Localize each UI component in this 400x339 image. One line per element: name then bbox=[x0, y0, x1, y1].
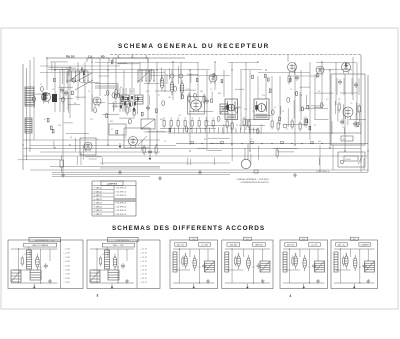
svg-text:R8: R8 bbox=[204, 139, 206, 141]
svg-text:— C6 4T: — C6 4T bbox=[140, 270, 148, 272]
svg-text:— C5 4T: — C5 4T bbox=[140, 265, 148, 267]
svg-text:C15: C15 bbox=[178, 115, 181, 117]
svg-text:R1: R1 bbox=[309, 267, 311, 269]
svg-text:P.6: P.6 bbox=[353, 239, 356, 241]
svg-text:— C6 4T: — C6 4T bbox=[63, 270, 71, 272]
svg-text:— C8 4T: — C8 4T bbox=[63, 278, 71, 280]
svg-text:MODULATION — GO: MODULATION — GO bbox=[35, 239, 55, 242]
svg-text:R1: R1 bbox=[253, 267, 255, 269]
svg-text:MW.CW: MW.CW bbox=[255, 245, 262, 247]
svg-text:✶ 6E8-21: ✶ 6E8-21 bbox=[94, 194, 104, 197]
svg-text:470: 470 bbox=[262, 95, 265, 97]
svg-text:— C3 4T: — C3 4T bbox=[140, 257, 148, 259]
svg-text:C2: C2 bbox=[237, 254, 239, 256]
svg-text:✶ 6E8-21: ✶ 6E8-21 bbox=[94, 198, 104, 201]
svg-text:R1: R1 bbox=[199, 267, 201, 269]
svg-text:100: 100 bbox=[58, 125, 61, 127]
svg-text:C15: C15 bbox=[238, 107, 241, 109]
svg-text:CLAVIER: CLAVIER bbox=[361, 244, 370, 247]
svg-text:3: 3 bbox=[97, 294, 99, 298]
svg-text:C9: C9 bbox=[350, 103, 352, 105]
svg-text:6E8: 6E8 bbox=[160, 119, 163, 121]
svg-text:CL. PO: CL. PO bbox=[311, 245, 318, 247]
svg-text:1 16 2F9 C4: 1 16 2F9 C4 bbox=[116, 210, 126, 212]
svg-text:— C3 4T: — C3 4T bbox=[63, 257, 71, 259]
svg-text:GMS. ET TRANSF.: GMS. ET TRANSF. bbox=[32, 244, 49, 247]
svg-text:R10: R10 bbox=[318, 141, 321, 143]
svg-text:SCHEMA GENERAL DU RECEPTEUR: SCHEMA GENERAL DU RECEPTEUR bbox=[118, 43, 270, 50]
svg-text:C2: C2 bbox=[294, 254, 296, 256]
svg-text:CL. FM: CL. FM bbox=[201, 245, 208, 247]
svg-text:— C7 4T: — C7 4T bbox=[63, 274, 71, 276]
svg-text:R4: R4 bbox=[74, 103, 76, 105]
svg-text:✶ 6E8-21: ✶ 6E8-21 bbox=[94, 209, 104, 212]
svg-text:R4: R4 bbox=[300, 95, 302, 97]
svg-text:✶ 6E8-21: ✶ 6E8-21 bbox=[94, 213, 104, 216]
svg-text:22: 22 bbox=[252, 111, 254, 113]
svg-text:100: 100 bbox=[168, 97, 171, 99]
svg-text:— C7 4T: — C7 4T bbox=[140, 274, 148, 276]
svg-text:— C4 4T: — C4 4T bbox=[140, 261, 148, 263]
svg-text:C3: C3 bbox=[342, 127, 344, 129]
svg-text:P.3: P.3 bbox=[192, 239, 195, 241]
svg-text:POSITION P.U.: POSITION P.U. bbox=[116, 240, 130, 242]
svg-text:R1: R1 bbox=[359, 267, 361, 269]
svg-text:C7: C7 bbox=[326, 99, 328, 101]
svg-text:C9: C9 bbox=[250, 139, 252, 141]
svg-text:✶ 6E8-21: ✶ 6E8-21 bbox=[94, 190, 104, 193]
svg-text:1 16 2F9 C4: 1 16 2F9 C4 bbox=[116, 203, 126, 205]
svg-text:R8: R8 bbox=[338, 99, 340, 101]
svg-text:R1: R1 bbox=[117, 267, 119, 269]
svg-text:4V5: 4V5 bbox=[343, 139, 346, 141]
svg-text:470: 470 bbox=[260, 125, 263, 127]
svg-text:22: 22 bbox=[236, 125, 238, 127]
svg-text:GM. BM: GM. BM bbox=[230, 245, 237, 247]
svg-text:R2: R2 bbox=[314, 125, 316, 127]
svg-text:47: 47 bbox=[44, 119, 46, 121]
svg-text:R10: R10 bbox=[358, 111, 361, 113]
svg-text:6E8: 6E8 bbox=[218, 93, 221, 95]
svg-text:R1: R1 bbox=[40, 267, 42, 269]
svg-text:1 16 2F9 C4: 1 16 2F9 C4 bbox=[116, 191, 126, 193]
svg-text:C2: C2 bbox=[24, 254, 26, 256]
svg-text:MW. — CW.: MW. — CW. bbox=[113, 245, 124, 247]
svg-text:C7: C7 bbox=[112, 103, 114, 105]
svg-text:1 16 2F9 C4: 1 16 2F9 C4 bbox=[116, 214, 126, 216]
svg-text:• L’INTERRUPTEUR A POSITION: • L’INTERRUPTEUR A POSITION bbox=[240, 181, 269, 184]
svg-text:C7: C7 bbox=[164, 141, 166, 143]
svg-text:FM. GO: FM. GO bbox=[66, 55, 75, 58]
svg-text:LAMPES: LAMPES bbox=[107, 183, 118, 186]
svg-text:R16: R16 bbox=[206, 121, 209, 123]
svg-text:— C9 4T: — C9 4T bbox=[63, 282, 71, 284]
svg-text:C1: C1 bbox=[286, 129, 288, 131]
svg-text:4: 4 bbox=[290, 294, 292, 298]
svg-text:1 16 2F9 C4: 1 16 2F9 C4 bbox=[116, 188, 126, 190]
svg-text:MO. PO: MO. PO bbox=[287, 245, 294, 247]
svg-text:R2: R2 bbox=[282, 111, 284, 113]
svg-text:1 16 2F9 C4: 1 16 2F9 C4 bbox=[116, 206, 126, 208]
svg-text:R8: R8 bbox=[120, 87, 122, 89]
svg-text:C2: C2 bbox=[184, 254, 186, 256]
svg-text:R2: R2 bbox=[52, 89, 54, 91]
svg-text:C9: C9 bbox=[130, 91, 132, 93]
svg-text:C3: C3 bbox=[290, 89, 292, 91]
svg-text:C1: C1 bbox=[40, 84, 42, 86]
svg-text:R10: R10 bbox=[146, 91, 149, 93]
svg-text:✶ 6E8-21: ✶ 6E8-21 bbox=[94, 205, 104, 208]
svg-text:SCHEMAS DES DIFFERENTS ACCORDS: SCHEMAS DES DIFFERENTS ACCORDS bbox=[112, 225, 265, 232]
svg-text:R6: R6 bbox=[104, 95, 106, 97]
svg-text:— C5 4T: — C5 4T bbox=[63, 265, 71, 267]
svg-text:• TRAIT A L’INTERIEUR — FILS N: • TRAIT A L’INTERIEUR — FILS NOIR bbox=[236, 178, 269, 181]
svg-text:R14: R14 bbox=[110, 121, 113, 123]
svg-text:MO. GO: MO. GO bbox=[177, 245, 185, 247]
svg-text:R6: R6 bbox=[124, 137, 126, 139]
svg-text:— C1 4T: — C1 4T bbox=[63, 249, 71, 251]
svg-text:C3: C3 bbox=[66, 93, 68, 95]
svg-text:— C2 4T: — C2 4T bbox=[140, 253, 148, 255]
svg-text:P.5: P.5 bbox=[302, 239, 305, 241]
svg-text:C2: C2 bbox=[102, 254, 104, 256]
svg-text:R4: R4 bbox=[70, 137, 72, 139]
svg-text:— C9 4T: — C9 4T bbox=[140, 282, 148, 284]
svg-text:✳ SECTEUR ✳: ✳ SECTEUR ✳ bbox=[316, 170, 330, 173]
svg-text:MO. OC: MO. OC bbox=[338, 245, 346, 247]
svg-text:C12: C12 bbox=[186, 89, 189, 91]
svg-text:6V-110: 6V-110 bbox=[346, 159, 351, 161]
svg-text:C1: C1 bbox=[274, 107, 276, 109]
svg-text:✶ 6E8-21: ✶ 6E8-21 bbox=[94, 202, 104, 205]
svg-text:✶ 6E8-21: ✶ 6E8-21 bbox=[94, 187, 104, 190]
svg-text:C12: C12 bbox=[90, 119, 93, 121]
svg-text:— C1 4T: — C1 4T bbox=[140, 249, 148, 251]
svg-text:— C8 4T: — C8 4T bbox=[140, 278, 148, 280]
svg-text:R16: R16 bbox=[244, 109, 247, 111]
svg-text:C5: C5 bbox=[88, 91, 90, 93]
svg-text:— C2 4T: — C2 4T bbox=[63, 253, 71, 255]
svg-text:1 16 2F9 C4: 1 16 2F9 C4 bbox=[116, 195, 126, 197]
svg-text:R6: R6 bbox=[318, 91, 320, 93]
svg-text:C2: C2 bbox=[345, 254, 347, 256]
svg-text:R14: R14 bbox=[200, 91, 203, 93]
svg-text:— C4 4T: — C4 4T bbox=[63, 261, 71, 263]
svg-text:47: 47 bbox=[158, 95, 160, 97]
svg-text:C5: C5 bbox=[308, 107, 310, 109]
svg-text:P.4: P.4 bbox=[246, 239, 249, 241]
svg-text:C5: C5 bbox=[96, 139, 98, 141]
